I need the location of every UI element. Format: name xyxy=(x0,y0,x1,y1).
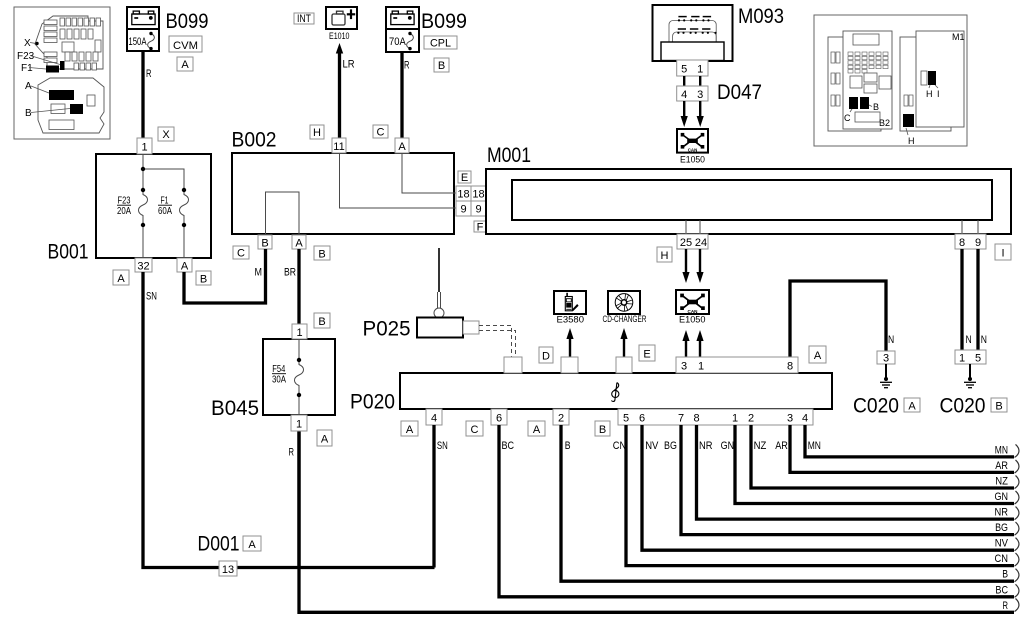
svg-text:B2: B2 xyxy=(879,118,890,128)
svg-text:9: 9 xyxy=(460,204,466,216)
svg-text:M: M xyxy=(255,267,263,279)
svg-text:8: 8 xyxy=(959,237,965,249)
svg-text:E1010: E1010 xyxy=(329,31,350,42)
svg-text:M001: M001 xyxy=(487,144,531,167)
svg-text:25: 25 xyxy=(680,237,692,249)
svg-text:NR: NR xyxy=(699,440,713,452)
svg-text:B: B xyxy=(318,249,325,261)
svg-text:B099: B099 xyxy=(166,10,209,33)
svg-text:3: 3 xyxy=(681,361,687,373)
svg-text:BG: BG xyxy=(664,440,677,452)
svg-text:A: A xyxy=(321,434,329,446)
svg-text:CAN: CAN xyxy=(688,148,698,153)
svg-text:M093: M093 xyxy=(738,5,784,28)
svg-text:20A: 20A xyxy=(117,205,131,217)
svg-text:NV: NV xyxy=(995,538,1009,550)
svg-text:P020: P020 xyxy=(350,391,395,414)
svg-text:E: E xyxy=(461,172,468,184)
svg-text:NR: NR xyxy=(995,507,1009,519)
svg-text:1: 1 xyxy=(698,361,704,373)
svg-text:B: B xyxy=(318,316,325,328)
svg-text:BC: BC xyxy=(502,440,515,452)
svg-text:C: C xyxy=(844,113,851,123)
svg-text:R: R xyxy=(1003,600,1009,612)
svg-text:B002: B002 xyxy=(232,129,277,152)
svg-text:B: B xyxy=(995,401,1002,413)
svg-text:B: B xyxy=(261,238,268,250)
svg-text:N: N xyxy=(981,334,987,346)
svg-text:CN: CN xyxy=(613,440,627,452)
svg-text:A: A xyxy=(181,59,189,71)
svg-text:F: F xyxy=(477,222,484,234)
svg-text:B: B xyxy=(25,108,32,119)
svg-text:P025: P025 xyxy=(363,318,411,341)
svg-text:C: C xyxy=(377,127,385,139)
svg-text:CN: CN xyxy=(995,553,1009,565)
svg-text:A: A xyxy=(248,539,256,551)
svg-text:MN: MN xyxy=(808,440,821,452)
svg-text:5: 5 xyxy=(681,64,687,76)
svg-text:CAN: CAN xyxy=(688,309,699,314)
svg-text:CVM: CVM xyxy=(173,40,198,52)
svg-text:BR: BR xyxy=(284,267,296,279)
svg-text:BC: BC xyxy=(995,584,1008,596)
svg-text:M1: M1 xyxy=(952,32,965,42)
svg-text:8: 8 xyxy=(693,413,699,425)
svg-text:F1: F1 xyxy=(21,63,33,74)
svg-text:E3580: E3580 xyxy=(557,315,585,326)
svg-text:60A: 60A xyxy=(158,205,172,217)
svg-text:A: A xyxy=(181,261,189,273)
svg-text:E1050: E1050 xyxy=(679,315,706,326)
svg-text:C: C xyxy=(237,248,245,260)
svg-text:B: B xyxy=(438,60,445,72)
svg-text:H: H xyxy=(908,136,915,146)
svg-text:1: 1 xyxy=(141,142,147,154)
svg-text:18: 18 xyxy=(472,189,484,201)
svg-text:LR: LR xyxy=(343,59,355,71)
svg-text:4: 4 xyxy=(431,413,437,425)
svg-text:E: E xyxy=(643,349,650,361)
svg-text:SN: SN xyxy=(437,440,448,452)
svg-text:3: 3 xyxy=(697,89,703,101)
svg-text:70A: 70A xyxy=(389,36,406,48)
svg-text:7: 7 xyxy=(678,413,684,425)
svg-text:C020: C020 xyxy=(853,395,899,418)
svg-text:A: A xyxy=(398,141,406,153)
svg-text:H: H xyxy=(926,89,933,99)
svg-text:C: C xyxy=(471,424,479,436)
svg-text:1: 1 xyxy=(959,353,965,365)
svg-text:2: 2 xyxy=(558,413,564,425)
svg-text:B099: B099 xyxy=(421,10,467,33)
svg-text:B: B xyxy=(599,424,606,436)
svg-text:SN: SN xyxy=(146,291,157,303)
svg-text:GN: GN xyxy=(995,491,1009,503)
svg-text:C020: C020 xyxy=(940,395,986,418)
svg-text:6: 6 xyxy=(639,413,645,425)
svg-text:NZ: NZ xyxy=(995,476,1008,488)
svg-text:B: B xyxy=(873,102,879,112)
svg-text:R: R xyxy=(289,447,295,459)
svg-text:B001: B001 xyxy=(48,241,89,264)
svg-text:NZ: NZ xyxy=(754,440,767,452)
svg-text:B: B xyxy=(200,274,207,286)
svg-text:4: 4 xyxy=(681,89,687,101)
svg-text:E1050: E1050 xyxy=(680,154,705,165)
svg-text:N: N xyxy=(888,334,894,346)
svg-text:1: 1 xyxy=(296,327,302,339)
svg-text:GN: GN xyxy=(721,440,735,452)
svg-text:150A: 150A xyxy=(128,36,147,48)
svg-text:18: 18 xyxy=(457,189,469,201)
svg-text:1: 1 xyxy=(296,419,302,431)
svg-text:A: A xyxy=(295,238,303,250)
svg-text:11: 11 xyxy=(333,141,344,153)
svg-text:BG: BG xyxy=(995,522,1008,534)
svg-text:X: X xyxy=(162,129,170,141)
svg-text:A: A xyxy=(117,273,125,285)
svg-text:INT: INT xyxy=(297,13,311,25)
svg-text:2: 2 xyxy=(748,413,754,425)
svg-text:R: R xyxy=(404,60,410,72)
svg-text:3: 3 xyxy=(787,413,793,425)
svg-text:24: 24 xyxy=(695,237,707,249)
svg-text:D001: D001 xyxy=(198,533,240,556)
svg-text:N: N xyxy=(966,334,972,346)
svg-text:1: 1 xyxy=(732,413,738,425)
svg-text:H: H xyxy=(313,127,321,139)
svg-text:I: I xyxy=(937,89,940,99)
svg-text:3: 3 xyxy=(883,353,889,365)
svg-text:1: 1 xyxy=(697,64,703,76)
svg-text:B045: B045 xyxy=(211,397,259,420)
svg-text:B: B xyxy=(1002,569,1008,581)
svg-text:5: 5 xyxy=(623,413,629,425)
svg-text:30A: 30A xyxy=(272,373,286,385)
svg-text:9: 9 xyxy=(475,204,481,216)
svg-text:B: B xyxy=(565,440,571,452)
svg-text:X: X xyxy=(24,38,31,49)
svg-text:9: 9 xyxy=(975,237,981,249)
svg-text:32: 32 xyxy=(137,261,149,273)
svg-text:A: A xyxy=(406,424,414,436)
svg-text:13: 13 xyxy=(222,564,234,576)
svg-text:R: R xyxy=(146,68,152,80)
svg-text:5: 5 xyxy=(975,353,981,365)
svg-text:I: I xyxy=(1001,248,1004,260)
svg-text:A: A xyxy=(533,424,541,436)
svg-text:4: 4 xyxy=(802,413,808,425)
svg-text:CD-CHANGER: CD-CHANGER xyxy=(603,314,647,325)
svg-text:AR: AR xyxy=(775,440,788,452)
svg-text:A: A xyxy=(814,350,822,362)
svg-text:NV: NV xyxy=(645,440,659,452)
svg-text:8: 8 xyxy=(787,361,793,373)
svg-text:MN: MN xyxy=(995,444,1008,456)
svg-text:A: A xyxy=(25,81,32,92)
svg-text:D047: D047 xyxy=(717,81,762,104)
svg-text:CPL: CPL xyxy=(430,38,451,50)
svg-text:A: A xyxy=(908,401,916,413)
svg-text:H: H xyxy=(661,250,669,262)
svg-text:6: 6 xyxy=(496,413,502,425)
svg-text:D: D xyxy=(542,351,550,363)
svg-text:AR: AR xyxy=(995,460,1008,472)
